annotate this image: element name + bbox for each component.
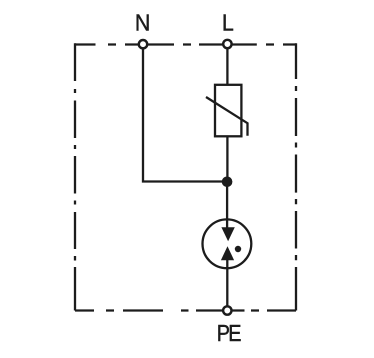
- device enclosure outline bottom (dash-dot): [75, 309, 296, 311]
- device enclosure outline right (dash-dot): [295, 43, 297, 310]
- wire spark gap to terminal PE: [226, 260, 228, 311]
- varistor: [206, 85, 248, 137]
- device enclosure outline top (dash-dot): [75, 43, 296, 45]
- wire node to spark gap: [226, 182, 228, 228]
- wire terminal N to node: [143, 44, 227, 181]
- device enclosure outline left (dash-dot): [74, 43, 76, 310]
- terminal N: [139, 40, 147, 48]
- wire varistor to node: [226, 136, 228, 181]
- spark gap: [203, 219, 252, 268]
- terminal PE: [223, 306, 231, 314]
- svg-text:PE: PE: [217, 319, 241, 346]
- terminal L: [223, 40, 231, 48]
- wire terminal L to varistor: [226, 44, 228, 85]
- svg-text:L: L: [222, 10, 234, 36]
- svg-text:N: N: [135, 10, 150, 36]
- node junction dot: [222, 177, 233, 188]
